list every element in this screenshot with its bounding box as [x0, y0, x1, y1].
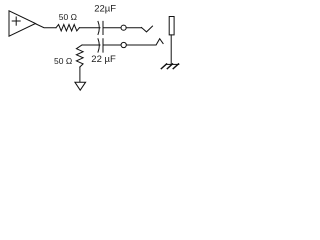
wire op-amp output: [36, 24, 57, 28]
wire sleeve to ground: [170, 35, 172, 65]
connector terminal circle top: [121, 25, 126, 30]
resistor R2 50 Ohm shunt vertical: [76, 45, 83, 67]
wire connector to jack ring contact bottom: [126, 44, 156, 46]
wire connector to jack tip contact top: [126, 27, 141, 29]
wire R1 to C1: [79, 27, 100, 29]
ground signal arrow: [75, 82, 86, 90]
jack tip contact top: [142, 26, 153, 32]
svg-text:22µF: 22µF: [94, 3, 116, 14]
ground chassis: [161, 64, 179, 69]
jack ring contact bottom: [156, 39, 163, 45]
svg-text:50 Ω: 50 Ω: [54, 56, 72, 66]
jack sleeve plug body: [169, 17, 174, 35]
svg-text:50 Ω: 50 Ω: [59, 12, 77, 22]
capacitor C2 22uF bottom: [98, 39, 103, 52]
resistor R1 50 Ohm series: [56, 25, 79, 31]
capacitor C1 22uF top: [98, 21, 103, 34]
wire C1 to connector: [103, 27, 121, 29]
svg-text:22 µF: 22 µF: [91, 54, 116, 65]
wire R2 to ground arrow: [79, 67, 81, 82]
wire row2 from node to C2: [82, 44, 100, 46]
op-amp U1: [9, 11, 36, 36]
wire C2 to connector: [103, 44, 121, 46]
connector terminal circle bottom: [121, 42, 126, 47]
